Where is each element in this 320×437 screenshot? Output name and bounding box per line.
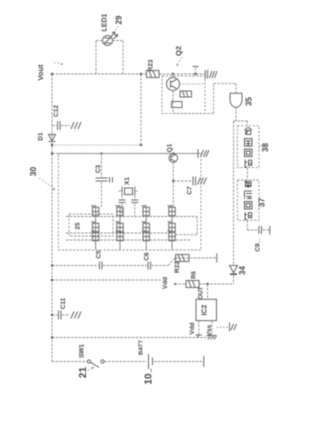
svg-text:OUT: OUT [199,286,205,299]
svg-text:25: 25 [75,222,82,230]
svg-text:IC2: IC2 [202,304,209,315]
svg-text:10: 10 [144,373,155,385]
svg-text:LED1: LED1 [102,13,109,31]
svg-text:R22: R22 [174,261,181,273]
svg-text:Vout: Vout [36,64,45,81]
svg-text:C3: C3 [95,164,102,173]
svg-text:C5: C5 [96,250,103,259]
svg-text:Vss: Vss [206,324,213,336]
svg-text:29: 29 [115,15,124,24]
svg-text:R6: R6 [192,271,198,279]
svg-text:Q1: Q1 [167,143,174,152]
svg-text:35: 35 [245,97,254,106]
svg-text:38: 38 [261,143,270,152]
svg-text:34: 34 [238,266,247,275]
svg-text:Vdd: Vdd [162,277,169,289]
svg-text:SW1: SW1 [78,344,85,358]
svg-text:BATT: BATT [139,340,145,355]
svg-text:37: 37 [258,198,267,207]
svg-text:C9: C9 [255,243,262,252]
svg-text:C6: C6 [144,252,151,261]
svg-text:R23: R23 [148,59,155,71]
svg-text:X1: X1 [124,177,131,185]
svg-text:C12: C12 [53,105,60,117]
svg-text:Vdd: Vdd [189,322,196,334]
svg-text:21: 21 [78,367,89,379]
svg-text:Q2: Q2 [174,46,183,56]
svg-text:C7: C7 [187,186,194,195]
svg-text:30: 30 [28,167,38,177]
svg-text:D1: D1 [38,132,45,141]
svg-text:C11: C11 [60,297,67,309]
